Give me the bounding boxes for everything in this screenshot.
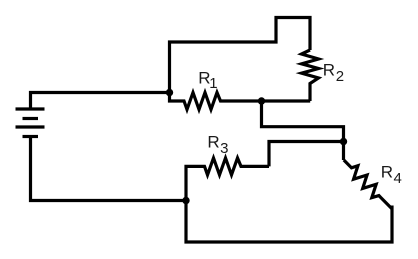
label R1 [198,69,217,93]
wire node A up and over to R2 top [170,18,311,93]
svg-text:R: R [323,61,335,80]
label R2 [323,61,344,85]
label R4 [381,163,402,187]
battery B1 [16,109,45,137]
wire node C down to R4 [342,142,345,161]
label R3 [207,133,228,157]
svg-text:3: 3 [220,140,228,157]
resistor R2 [302,50,319,101]
wire node B down and over to node C [262,101,344,142]
wire R3 right up to node C [269,142,344,167]
svg-text:R: R [207,133,219,152]
node C [340,138,347,145]
wire R2 bottom to node B [262,99,311,102]
node D [182,197,189,204]
svg-text:1: 1 [209,75,217,92]
resistor R1 [170,93,262,110]
node B [258,97,265,104]
wire battery bottom to node D [31,137,187,201]
node A [166,89,173,96]
resistor R4 [339,156,396,213]
svg-text:2: 2 [336,68,344,85]
wire R4 bottom rail to node D [186,201,392,243]
svg-text:R: R [381,163,393,182]
resistor R3 [186,158,269,201]
wire battery top to node A [31,93,170,110]
svg-text:4: 4 [394,170,402,187]
